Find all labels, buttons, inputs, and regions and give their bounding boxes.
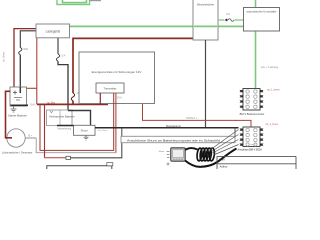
alternator Lichtmaschine circle [2,129,33,155]
fuse main red [71,93,74,101]
chip2 battery monitor IC [240,127,264,147]
fuse 5A [56,54,59,61]
wire green over inverter (redraw) [194,25,217,27]
svg-text:15A: 15A [226,13,231,16]
svg-text:B +: B + [29,135,33,138]
ground battery1 [11,106,17,112]
svg-text:Masseleitung: Masseleitung [166,125,181,128]
fuse blob [225,19,227,21]
wire black Masseleitung main [95,127,239,129]
charger Ladegerät [36,24,70,38]
wire B+ from alternator [25,137,36,139]
relay Trennrelais [96,83,124,93]
wire black battery2 to shunt [57,125,74,127]
svg-text:Lichtmaschine / Generator: Lichtmaschine / Generator [2,151,33,155]
svg-text:Energiezentrale mit Sicherunge: Energiezentrale mit Sicherungen 12V [92,70,142,74]
svg-text:automatischer Umschalter: automatischer Umschalter [246,10,276,14]
svg-text:95Ah: 95Ah [30,104,36,107]
wire relay drop 3 gray-red [115,93,117,153]
wire black inverter down [205,40,207,128]
wire red battery1 to alternator [6,91,13,138]
title block table [217,156,296,169]
fan wires coil to chip2 pins [210,130,239,156]
wire gray stub top [90,0,102,2]
wire red below Ladegerät to bus [36,38,38,104]
svg-text:30 A: 30 A [117,97,122,100]
bottom box [47,163,113,169]
wire green vertical top to Umschalter [255,0,257,8]
wire red bottom segment [45,157,67,159]
fuse 50A [19,48,22,55]
svg-text:SCHALT +: SCHALT + [186,117,198,120]
wire green loop inner [63,0,87,3]
svg-text:Shunt: Shunt [81,128,88,132]
svg-text:5 A: 5 A [62,54,66,58]
wire red bottom return [44,105,46,158]
wire red to battery monitor 2 [143,104,252,127]
svg-text:Anschlüsse Shunt an Batterieco: Anschlüsse Shunt an Batteriecomputer wie… [127,138,220,142]
svg-text:50A: 50A [24,47,29,51]
svg-text:Trennrelais: Trennrelais [104,87,118,91]
wire green inverter to switch with fuse [218,19,225,21]
ground shunt [84,135,89,140]
label strip Anschlüsse [121,136,235,142]
wire green vertical Umschalter to monitor chip [255,31,257,89]
shunt box [74,125,96,135]
wire black from Ladegerät with fuse 5A [57,38,59,54]
battery computer device [171,148,186,161]
svg-text:Ladegerät: Ladegerät [46,30,60,34]
svg-text:Verbraucher Batterie: Verbraucher Batterie [49,115,75,119]
wire black feed to Ladegerät (with fuse) [20,31,36,48]
svg-text:rot 16mm: rot 16mm [3,52,6,62]
svg-text:Starter Batterie: Starter Batterie [8,114,27,118]
svg-text:rot_1_innen: rot_1_innen [267,89,280,92]
wire dark red relay drop 2 [40,93,114,150]
wire green loop outer (top, clipped) [57,0,90,5]
wire red battery1 plus link [27,87,37,89]
battery Starter [8,87,36,118]
battery2 terminal mark [50,111,53,113]
svg-text:Titel: Titel [220,158,225,162]
coiled cable [196,148,215,161]
cable device to coil top [185,148,198,150]
wire dark bottom to strip [71,143,122,158]
wire black fuse to battery1 [19,55,21,93]
inverter Wechselrichter [193,0,218,40]
wire black fuse to step [58,61,68,110]
wire red bus horizontal [37,103,108,105]
battery2 inner divider [59,110,61,126]
svg-text:rot_2_innen: rot_2_innen [266,123,279,126]
svg-text:Shunt: Shunt [159,150,165,153]
svg-text:Anschluss BM-V BCM: Anschluss BM-V BCM [238,149,262,152]
wire red main riser [73,38,193,93]
chip1 BM-V Batteriemonitor [240,89,265,117]
cable bottom swoosh [185,149,237,167]
svg-text:Wechselrichter: Wechselrichter [197,3,214,7]
wire red feed to Ladegerät [14,29,36,88]
svg-text:SH_Shunt: SH_Shunt [98,129,108,132]
fuse holder notch [66,156,71,159]
switch automatischer Umschalter [244,8,280,32]
svg-text:Masseleitung: Masseleitung [58,128,72,131]
wire dark strip drop [234,128,236,137]
wire green main horizontal [70,25,244,27]
svg-text:rot_2: rot_2 [251,143,257,146]
connector marks left of device [167,152,170,166]
svg-text:ws- / Leitung: ws- / Leitung [261,65,278,69]
wire gray alternator down to bottom [36,138,116,153]
wire dark strip to Masseleitung [121,128,123,137]
svg-text:BM-V Batteriemonitor: BM-V Batteriemonitor [240,112,265,116]
wire black battery2 steps [68,111,91,126]
svg-text:Author: Author [220,165,228,169]
svg-text:rot 16m: rot 16m [47,101,55,104]
wire red riser to bus [72,101,74,105]
battery Verbraucher [47,110,76,126]
distribution box Energiezentrale [79,52,155,104]
wire dark red relay drop 1 [99,93,101,104]
